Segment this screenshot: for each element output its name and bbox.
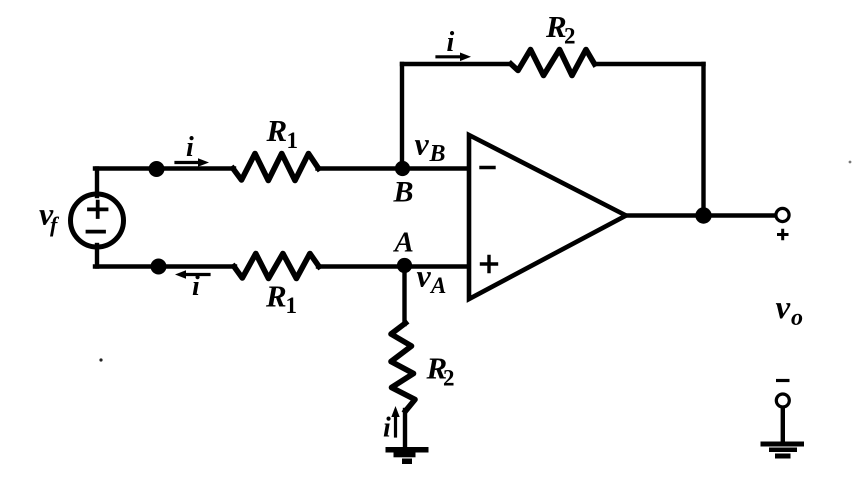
wire: feedback top right segment xyxy=(595,62,704,66)
svg-text:1: 1 xyxy=(286,293,298,318)
resistor R1 (bottom) zigzag xyxy=(234,254,319,279)
svg-text:A: A xyxy=(429,273,446,298)
wire: feedback left vertical from node B up xyxy=(400,64,404,169)
svg-text:i: i xyxy=(447,27,455,58)
output terminal open circle xyxy=(776,208,789,221)
wire: source bottom stub xyxy=(95,245,99,267)
wire: right terminal stem to ground xyxy=(781,407,785,442)
svg-text:i: i xyxy=(383,413,391,444)
wire: output from op-amp apex to terminal xyxy=(626,213,776,217)
speck artifact left xyxy=(99,358,102,361)
svg-text:i: i xyxy=(192,271,200,302)
svg-text:f: f xyxy=(50,212,60,237)
svg-text:v: v xyxy=(417,258,432,294)
wire: node A down to vertical R2 xyxy=(402,267,406,325)
ground (right output) xyxy=(761,442,805,459)
current arrow i (bottom-left, leftward) xyxy=(184,273,209,276)
node dot: left top junction xyxy=(149,161,165,177)
wire: bottom horizontal from source to op-amp plus input xyxy=(95,264,235,268)
wire: feedback right vertical down to output node xyxy=(701,64,705,216)
node B dot xyxy=(395,161,410,176)
svg-text:v: v xyxy=(415,126,430,162)
current arrow i (top-left, rightward) xyxy=(176,161,200,164)
wire: top horizontal after R1 to op-amp xyxy=(318,166,470,170)
label + (output terminal) xyxy=(777,229,789,241)
wire: source top stub xyxy=(95,169,99,197)
speck artifact right xyxy=(849,161,852,164)
svg-text:R: R xyxy=(266,113,288,148)
svg-text:B: B xyxy=(393,176,414,209)
svg-text:i: i xyxy=(186,132,194,163)
svg-text:R: R xyxy=(265,279,287,314)
node dot: left bottom junction xyxy=(151,259,167,275)
resistor R1 (top) zigzag xyxy=(233,154,319,181)
wire: feedback top left segment xyxy=(402,62,510,66)
voltage source plus sign xyxy=(89,202,107,217)
current arrow i (vertical R2, upward) xyxy=(394,415,397,436)
wire: top horizontal from source to op-amp minus input xyxy=(95,166,234,170)
node dot: output junction xyxy=(695,207,711,223)
label - (above right terminal) xyxy=(776,379,790,382)
op-amp plus input symbol xyxy=(482,257,497,272)
svg-text:2: 2 xyxy=(564,24,576,49)
svg-text:1: 1 xyxy=(287,128,299,153)
op-amp minus input symbol xyxy=(481,166,494,169)
voltage source vf circle xyxy=(71,194,124,247)
op-amp U1 triangle xyxy=(469,135,626,299)
wire: vertical R2 to ground xyxy=(403,410,407,446)
svg-text:B: B xyxy=(429,141,446,167)
current arrow i (feedback top, rightward) xyxy=(437,55,463,58)
node A dot xyxy=(397,258,412,273)
right lower terminal open circle xyxy=(776,394,789,407)
resistor R2 (vertical at node A) zigzag xyxy=(391,323,415,411)
ground (below vertical R2) xyxy=(386,447,429,464)
voltage source minus sign xyxy=(88,230,105,234)
svg-text:o: o xyxy=(791,305,803,331)
svg-text:A: A xyxy=(393,227,414,259)
svg-text:2: 2 xyxy=(443,366,455,391)
wire: bottom horizontal after R1 to op-amp xyxy=(318,264,469,268)
svg-text:v: v xyxy=(776,290,791,326)
resistor R2 (feedback, top) zigzag xyxy=(511,50,595,76)
